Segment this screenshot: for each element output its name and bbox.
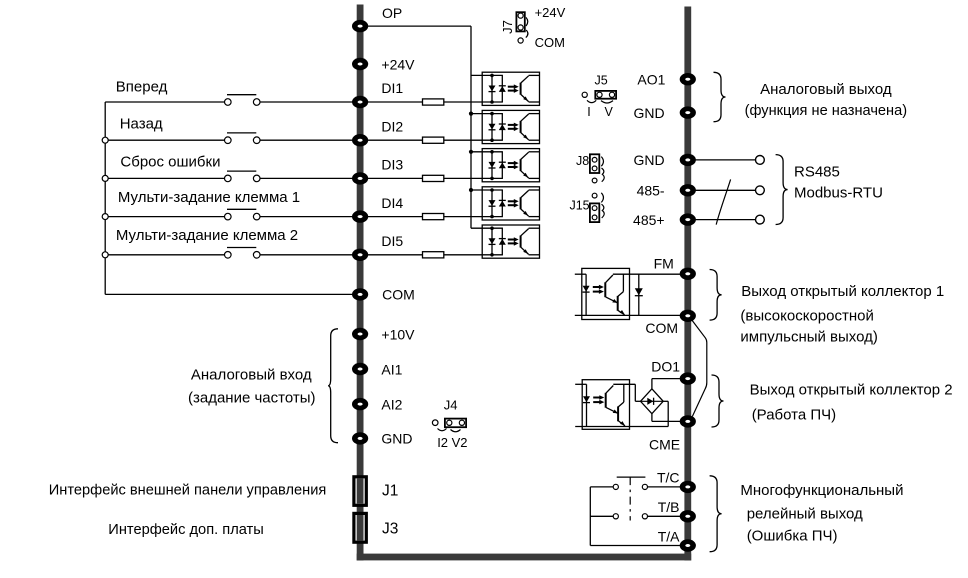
svg-text:T/B: T/B — [658, 499, 680, 515]
svg-text:J8: J8 — [576, 154, 589, 168]
svg-text:I: I — [587, 105, 590, 119]
svg-text:J3: J3 — [382, 521, 398, 538]
svg-text:AI2: AI2 — [381, 396, 402, 412]
svg-text:(Ошибка ПЧ): (Ошибка ПЧ) — [747, 528, 838, 545]
svg-text:DI4: DI4 — [381, 195, 403, 211]
svg-text:J4: J4 — [444, 398, 458, 413]
svg-text:485+: 485+ — [633, 212, 665, 228]
svg-text:T/C: T/C — [657, 470, 680, 486]
svg-text:Назад: Назад — [120, 115, 163, 132]
svg-text:FM: FM — [654, 256, 674, 272]
svg-text:Выход открытый коллектор 1: Выход открытый коллектор 1 — [741, 283, 944, 300]
svg-text:T/A: T/A — [658, 528, 680, 544]
svg-text:Многофункциональный: Многофункциональный — [740, 482, 903, 499]
svg-text:J5: J5 — [595, 74, 608, 88]
svg-text:+10V: +10V — [381, 326, 415, 342]
svg-text:Вперед: Вперед — [116, 79, 168, 96]
svg-text:(функция не назначена): (функция не назначена) — [745, 102, 908, 119]
svg-text:COM: COM — [535, 35, 565, 50]
svg-text:OP: OP — [382, 5, 402, 21]
svg-text:COM: COM — [645, 320, 678, 336]
svg-text:J7: J7 — [500, 20, 515, 34]
svg-text:COM: COM — [382, 287, 415, 303]
svg-text:Мульти-задание клемма 2: Мульти-задание клемма 2 — [116, 227, 298, 244]
svg-text:485-: 485- — [637, 183, 665, 199]
svg-text:Выход открытый коллектор 2: Выход открытый коллектор 2 — [750, 382, 953, 399]
svg-text:GND: GND — [633, 152, 664, 168]
svg-text:GND: GND — [633, 105, 664, 121]
svg-text:DI5: DI5 — [381, 233, 403, 249]
svg-text:V: V — [605, 105, 614, 119]
svg-text:(высокоскоростной: (высокоскоростной — [740, 308, 873, 325]
svg-text:CME: CME — [649, 437, 680, 453]
svg-text:Сброс ошибки: Сброс ошибки — [120, 154, 220, 171]
svg-text:AO1: AO1 — [637, 72, 665, 88]
svg-text:DI1: DI1 — [381, 80, 403, 96]
svg-text:(Работа ПЧ): (Работа ПЧ) — [752, 407, 836, 424]
svg-text:Аналоговый вход: Аналоговый вход — [191, 367, 312, 384]
svg-text:Аналоговый выход: Аналоговый выход — [760, 81, 892, 98]
svg-text:Интерфейс доп. платы: Интерфейс доп. платы — [108, 521, 263, 538]
svg-text:+24V: +24V — [381, 56, 415, 72]
svg-text:AI1: AI1 — [381, 361, 402, 377]
svg-text:J15: J15 — [569, 199, 589, 213]
svg-text:Modbus-RTU: Modbus-RTU — [794, 185, 883, 202]
svg-text:Интерфейс внешней панели управ: Интерфейс внешней панели управления — [49, 482, 327, 499]
svg-text:DI3: DI3 — [381, 157, 403, 173]
svg-text:Мульти-задание клемма 1: Мульти-задание клемма 1 — [118, 189, 300, 206]
svg-text:GND: GND — [381, 431, 412, 447]
svg-text:+24V: +24V — [535, 5, 566, 20]
svg-text:(задание частоты): (задание частоты) — [188, 390, 316, 407]
svg-text:J1: J1 — [382, 482, 398, 499]
svg-text:DO1: DO1 — [651, 359, 680, 375]
svg-text:I2 V2: I2 V2 — [437, 435, 467, 450]
svg-text:RS485: RS485 — [794, 163, 840, 180]
svg-text:импульсный выход): импульсный выход) — [740, 329, 878, 346]
svg-text:релейный выход: релейный выход — [747, 505, 863, 522]
svg-text:DI2: DI2 — [381, 118, 403, 134]
